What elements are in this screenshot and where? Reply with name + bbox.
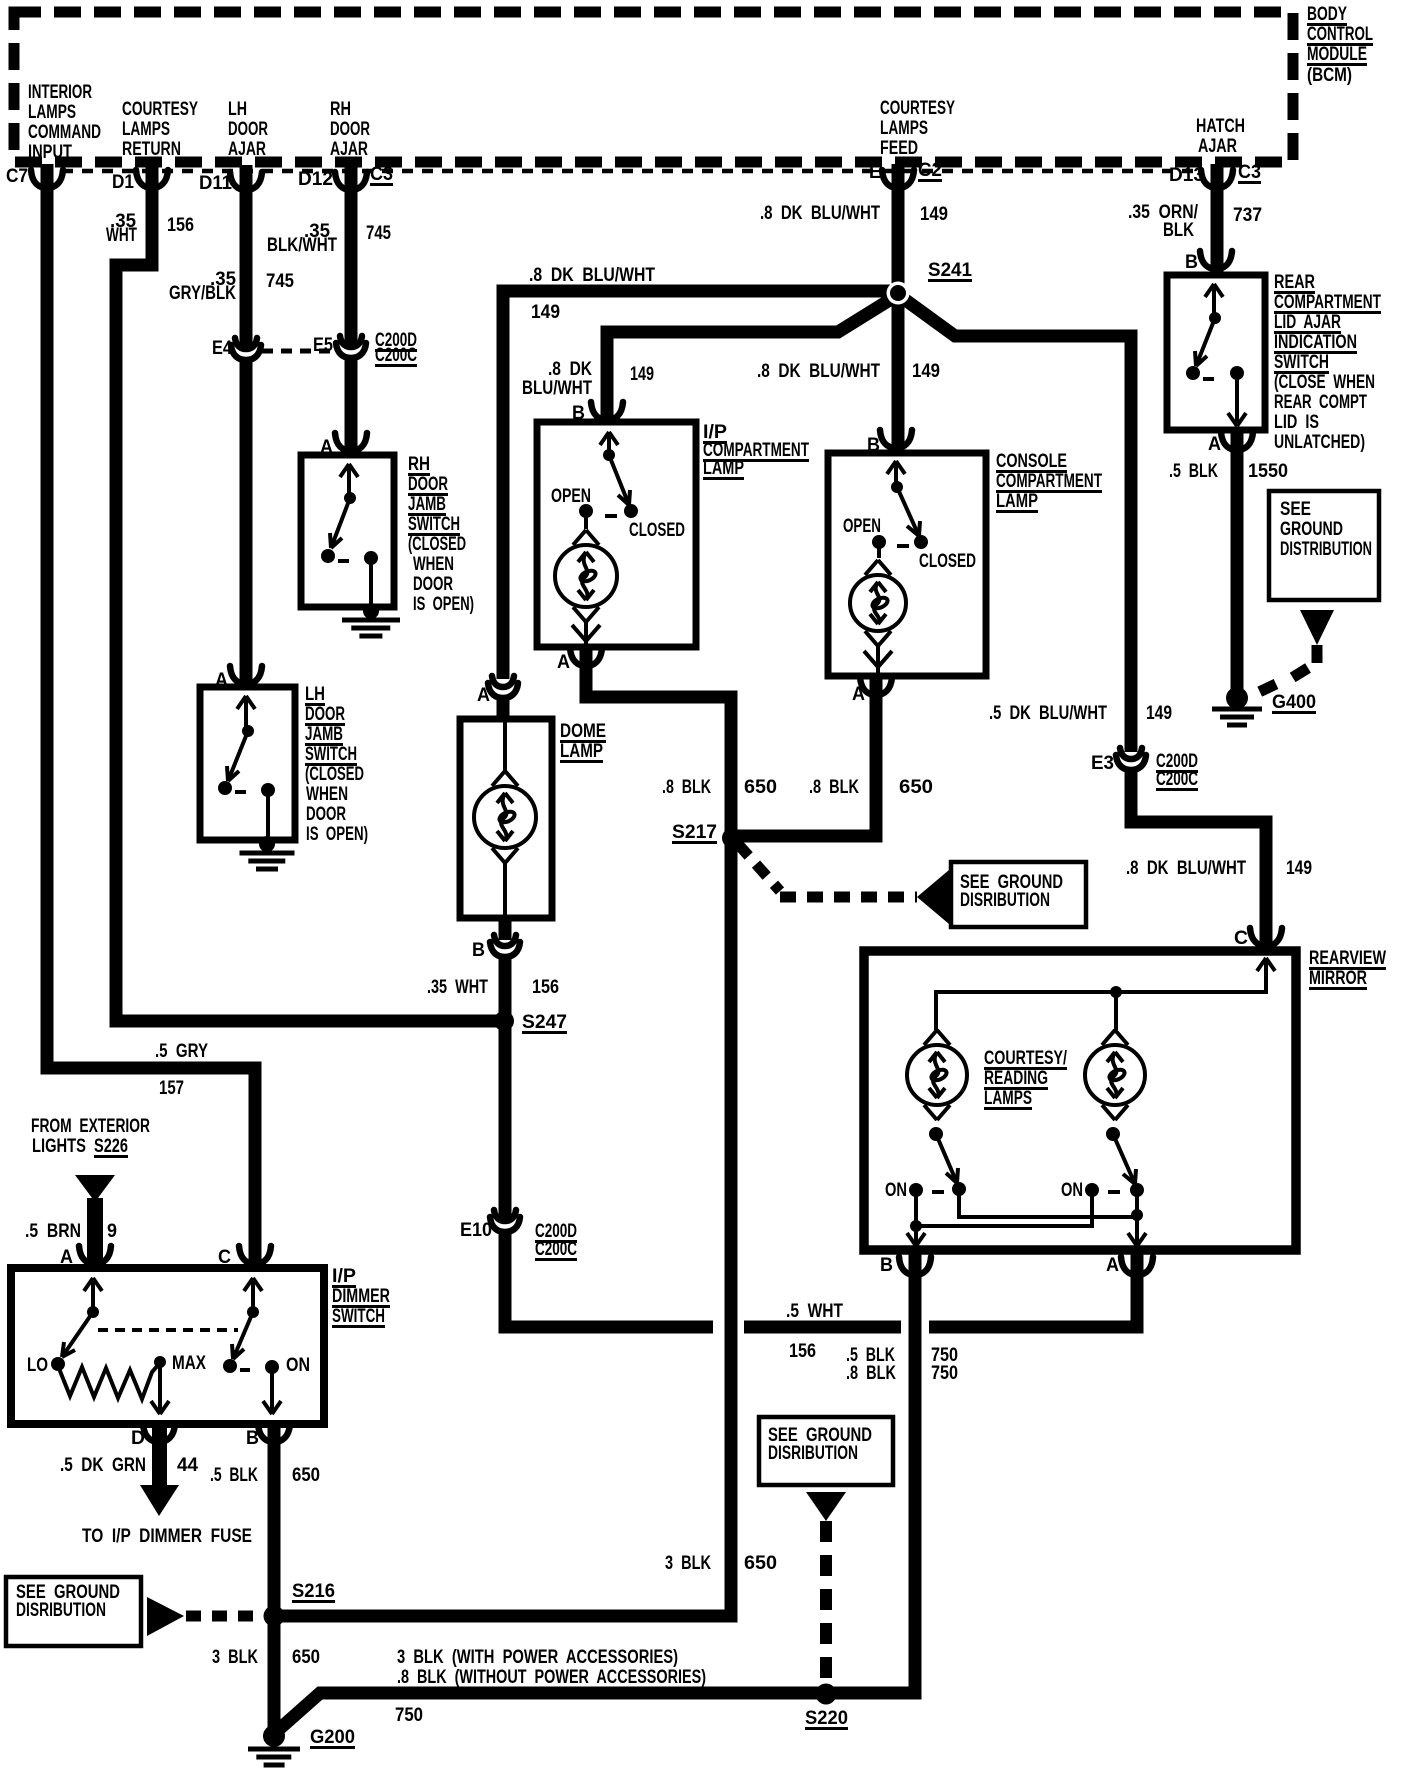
LH jamb switch contacts — [244, 696, 248, 731]
connector at pin D12 — [335, 172, 367, 190]
svg-text:FROM EXTERIOR: FROM EXTERIOR — [31, 1116, 150, 1137]
mirror right courtesy lamp — [1085, 1030, 1145, 1120]
BCM module dashed outline — [14, 12, 1293, 162]
svg-text:3 BLK (WITH POWER ACCESSOR: 3 BLK (WITH POWER ACCESSORIES) — [397, 1647, 678, 1668]
svg-text:3 BLK: 3 BLK — [665, 1553, 711, 1574]
svg-text:RH: RH — [408, 454, 430, 475]
svg-text:D12: D12 — [298, 169, 333, 190]
wire D12 rh door ajar to RH jamb switch — [345, 165, 358, 453]
svg-text:LAMPS: LAMPS — [984, 1088, 1032, 1109]
wire dome B to S247 to E10 to .5 WHT — [505, 955, 713, 1327]
svg-text:MODULE: MODULE — [1307, 44, 1367, 65]
svg-text:WHEN: WHEN — [306, 784, 348, 805]
svg-text:A: A — [1208, 434, 1221, 455]
RH jamb switch contacts — [347, 464, 351, 498]
svg-text:SWITCH: SWITCH — [305, 744, 357, 765]
svg-text:LAMPS: LAMPS — [122, 119, 170, 140]
svg-text:650: 650 — [292, 1465, 320, 1486]
svg-text:RH: RH — [330, 99, 351, 120]
svg-text:LIGHTS: LIGHTS — [32, 1136, 86, 1157]
svg-text:S220: S220 — [805, 1708, 848, 1729]
svg-text:CLOSED: CLOSED — [919, 551, 976, 572]
svg-text:745: 745 — [366, 223, 391, 244]
svg-text:DISRIBUTION: DISRIBUTION — [16, 1600, 106, 1621]
svg-text:AJAR: AJAR — [1198, 136, 1237, 157]
svg-text:A: A — [557, 652, 570, 673]
switch LH door jamb box — [200, 687, 295, 840]
svg-text:S241: S241 — [928, 260, 972, 281]
connector A at dome lamp — [494, 687, 512, 695]
svg-text:1550: 1550 — [1248, 461, 1288, 482]
svg-text:C2: C2 — [918, 160, 942, 181]
svg-text:READING: READING — [984, 1068, 1048, 1089]
svg-text:ON: ON — [885, 1180, 907, 1201]
connector at pin D1 — [136, 170, 168, 188]
wire S241 to E3 hatch branch — [900, 296, 1131, 752]
svg-text:AJAR: AJAR — [228, 139, 266, 160]
svg-text:DOOR: DOOR — [305, 704, 345, 725]
connector A at LH jamb switch — [230, 666, 262, 684]
svg-text:WHEN: WHEN — [413, 554, 454, 575]
svg-text:C3: C3 — [370, 164, 393, 185]
arrow to see ground distribution — [917, 870, 949, 924]
svg-text:LID AJAR: LID AJAR — [1274, 312, 1341, 333]
svg-text:750: 750 — [395, 1705, 423, 1726]
mirror internal ground wiring — [959, 1189, 1137, 1246]
svg-text:I/P: I/P — [332, 1266, 356, 1287]
svg-text:C200C: C200C — [1156, 769, 1198, 790]
svg-text:650: 650 — [292, 1647, 320, 1668]
svg-text:INPUT: INPUT — [28, 142, 72, 163]
see ground distribution box middle — [951, 862, 1086, 927]
svg-text:737: 737 — [1233, 205, 1262, 226]
svg-text:COMPARTMENT: COMPARTMENT — [1274, 292, 1381, 313]
dome lamp bulb — [503, 722, 507, 916]
svg-text:DOOR: DOOR — [413, 574, 453, 595]
wire E3 to rearview mirror C — [1131, 768, 1266, 949]
svg-text:650: 650 — [899, 777, 933, 798]
svg-text:745: 745 — [266, 271, 294, 292]
wire C7 interior lamps command input to dimmer C — [47, 164, 255, 1266]
svg-text:LO: LO — [27, 1355, 48, 1376]
switch RH door jamb box — [301, 455, 394, 607]
connector at pin C7 — [31, 170, 63, 188]
svg-text:E3: E3 — [1091, 753, 1114, 774]
svg-text:BLU/WHT: BLU/WHT — [522, 378, 592, 399]
wire S241 to I/P compartment lamp B — [607, 296, 896, 420]
svg-text:.5 BLK: .5 BLK — [1169, 461, 1218, 482]
svg-text:INDICATION: INDICATION — [1274, 332, 1357, 353]
svg-text:D1: D1 — [112, 172, 134, 193]
svg-text:AJAR: AJAR — [330, 139, 368, 160]
svg-text:TO I/P DIMMER FUSE: TO I/P DIMMER FUSE — [82, 1526, 252, 1547]
arrow to I/P dimmer fuse — [152, 1426, 167, 1487]
svg-text:C7: C7 — [6, 166, 28, 187]
svg-text:DISTRIBUTION: DISTRIBUTION — [1280, 539, 1372, 560]
mirror left courtesy lamp — [907, 1030, 967, 1120]
svg-text:UNLATCHED): UNLATCHED) — [1274, 432, 1365, 453]
svg-text:44: 44 — [177, 1455, 198, 1476]
ground G400 — [1226, 687, 1248, 709]
dashed wire to S216 — [186, 1611, 264, 1622]
svg-text:.8 DK BLU/WHT: .8 DK BLU/WHT — [760, 203, 880, 224]
svg-text:157: 157 — [159, 1078, 184, 1099]
connector C at dimmer switch — [239, 1246, 271, 1264]
console lamp switch — [894, 461, 898, 487]
svg-text:149: 149 — [630, 364, 654, 385]
connector at pin D13 — [1201, 170, 1233, 188]
svg-text:.5 WHT: .5 WHT — [786, 1301, 843, 1322]
connector E4 — [237, 349, 255, 357]
svg-text:COMMAND: COMMAND — [28, 122, 101, 143]
svg-text:(CLOSED: (CLOSED — [408, 534, 466, 555]
svg-text:DOME: DOME — [560, 721, 606, 742]
see ground distribution box bottom left — [6, 1577, 141, 1646]
svg-text:SEE: SEE — [1280, 499, 1311, 520]
svg-text:C200C: C200C — [535, 1239, 577, 1260]
wire mirror A to .5 WHT wire — [929, 1252, 1137, 1327]
svg-text:COMPARTMENT: COMPARTMENT — [996, 471, 1102, 492]
svg-text:COURTESY/: COURTESY/ — [984, 1048, 1068, 1069]
svg-text:GROUND: GROUND — [1280, 519, 1343, 540]
wire D11 lh door ajar to LH jamb switch — [240, 165, 253, 685]
svg-text:LAMP: LAMP — [996, 491, 1038, 512]
wire S241 to dome lamp A — [503, 291, 893, 679]
svg-text:.8 DK BLU/WHT: .8 DK BLU/WHT — [529, 265, 655, 286]
svg-text:B: B — [472, 940, 485, 961]
connector B at mirror — [899, 1257, 931, 1275]
svg-text:650: 650 — [744, 1553, 777, 1574]
svg-text:E4: E4 — [212, 338, 232, 359]
svg-text:BLK: BLK — [1163, 220, 1194, 241]
svg-text:3 BLK: 3 BLK — [212, 1647, 258, 1668]
svg-text:INTERIOR: INTERIOR — [28, 82, 92, 103]
svg-text:A: A — [1106, 1255, 1119, 1276]
I/P lamp bulb — [555, 530, 617, 622]
wire console lamp A to S217 — [737, 678, 876, 836]
svg-text:DOOR: DOOR — [330, 119, 370, 140]
mirror internal feed wire — [936, 958, 1266, 1030]
svg-text:MAX: MAX — [172, 1353, 206, 1374]
svg-text:COURTESY: COURTESY — [880, 98, 955, 119]
svg-text:B: B — [880, 1255, 893, 1276]
arrow from exterior lights — [75, 1175, 115, 1202]
dashed wire to S220 — [820, 1521, 832, 1688]
svg-text:S216: S216 — [292, 1581, 335, 1602]
svg-text:REAR: REAR — [1274, 272, 1315, 293]
svg-text:C3: C3 — [1238, 162, 1261, 183]
console compartment lamp box — [828, 453, 986, 676]
svg-text:RETURN: RETURN — [122, 139, 181, 160]
svg-text:LH: LH — [305, 684, 325, 705]
svg-text:.5 DK BLU/WHT: .5 DK BLU/WHT — [989, 703, 1107, 724]
svg-text:149: 149 — [920, 204, 948, 225]
svg-text:.5 DK GRN: .5 DK GRN — [60, 1455, 146, 1476]
svg-text:650: 650 — [744, 777, 777, 798]
connector E3 — [1122, 759, 1140, 767]
I/P dimmer switch box — [11, 1268, 324, 1424]
splice S216 — [264, 1606, 285, 1627]
svg-text:S217: S217 — [672, 822, 717, 843]
wire S241 to console lamp B — [892, 291, 905, 451]
wire I/P lamp A down to S217 and S216 — [280, 649, 731, 1616]
connector A at console lamp bottom — [860, 677, 892, 695]
svg-text:A: A — [477, 685, 490, 706]
connector B at dimmer bottom — [258, 1424, 290, 1442]
svg-text:(CLOSED: (CLOSED — [305, 764, 364, 785]
console lamp bulb — [850, 560, 906, 646]
svg-text:SWITCH: SWITCH — [1274, 352, 1329, 373]
svg-text:750: 750 — [931, 1363, 958, 1384]
connector B at I/P compartment lamp — [591, 402, 623, 420]
rear lid switch contacts — [1212, 284, 1216, 318]
svg-text:(BCM): (BCM) — [1307, 65, 1352, 86]
wire rear switch A to G400 — [1231, 432, 1244, 692]
svg-text:REAR COMPT: REAR COMPT — [1274, 392, 1367, 413]
svg-text:IS OPEN): IS OPEN) — [413, 594, 474, 615]
splice S217 — [722, 828, 742, 848]
connector D at dimmer bottom — [143, 1424, 175, 1442]
dashed ground wire from S217 — [738, 844, 917, 897]
svg-text:CONSOLE: CONSOLE — [996, 451, 1067, 472]
svg-text:LAMP: LAMP — [560, 741, 603, 762]
mirror right lamp switch — [1106, 1127, 1120, 1141]
mirror left lamp switch — [929, 1127, 943, 1141]
svg-text:.35 WHT: .35 WHT — [427, 977, 488, 998]
dimmer rheostat zigzag — [58, 1363, 160, 1399]
svg-text:SWITCH: SWITCH — [332, 1306, 385, 1327]
arrow from ground distribution box — [147, 1597, 184, 1636]
I/P lamp switch — [607, 432, 611, 455]
svg-text:.8 BLK: .8 BLK — [809, 777, 859, 798]
connector B at console lamp — [880, 430, 912, 448]
connector A at rear lid switch — [1221, 432, 1253, 450]
svg-text:.8 DK BLU/WHT: .8 DK BLU/WHT — [1126, 858, 1246, 879]
svg-text:LAMP: LAMP — [703, 458, 744, 479]
dome lamp box — [460, 719, 552, 918]
svg-text:C: C — [1234, 928, 1248, 949]
svg-text:149: 149 — [1286, 858, 1312, 879]
svg-text:BODY: BODY — [1307, 4, 1347, 25]
dimmer switch A arm — [91, 1278, 95, 1312]
svg-text:LID IS: LID IS — [1274, 412, 1319, 433]
svg-text:DOOR: DOOR — [408, 474, 448, 495]
svg-text:DISRIBUTION: DISRIBUTION — [960, 890, 1050, 911]
connector at pin E — [882, 170, 914, 188]
arrow down from ground distribution box — [1300, 610, 1334, 645]
svg-text:(CLOSE WHEN: (CLOSE WHEN — [1274, 372, 1375, 393]
svg-text:.8 BLK: .8 BLK — [662, 777, 711, 798]
svg-text:C200C: C200C — [375, 345, 417, 366]
connector A at mirror — [1121, 1257, 1153, 1275]
svg-text:156: 156 — [167, 215, 194, 236]
svg-text:LH: LH — [228, 99, 247, 120]
svg-text:B: B — [246, 1428, 259, 1449]
svg-text:A: A — [852, 684, 865, 705]
connector A at dimmer switch — [79, 1246, 111, 1264]
splice S220 — [816, 1684, 837, 1705]
ground at LH jamb switch — [259, 836, 275, 852]
wire D13 hatch ajar to rear lid switch B — [1211, 164, 1224, 273]
svg-text:.8 BLK (WITHOUT POWER ACCE: .8 BLK (WITHOUT POWER ACCESSORIES) — [397, 1667, 706, 1688]
connector E5 — [342, 347, 360, 355]
connector B at dome lamp — [499, 918, 512, 940]
wire D1 courtesy lamps return to S247 — [116, 164, 497, 1021]
wire dome A to dome lamp box — [497, 697, 510, 721]
wire E courtesy lamps feed to S241 — [892, 164, 905, 291]
svg-text:9: 9 — [107, 1221, 117, 1242]
connector A at I/P lamp bottom — [570, 648, 602, 666]
dashed wire to G400 — [1257, 645, 1317, 693]
svg-text:.5 BLK: .5 BLK — [210, 1465, 258, 1486]
svg-text:DISRIBUTION: DISRIBUTION — [768, 1443, 858, 1464]
ground at RH jamb switch — [363, 603, 379, 619]
rear compartment lid switch box — [1167, 275, 1265, 430]
dimmer mechanical link dashed — [98, 1328, 238, 1332]
I/P compartment lamp box — [537, 422, 696, 647]
svg-text:.5 GRY: .5 GRY — [155, 1041, 208, 1062]
svg-text:G200: G200 — [310, 1727, 355, 1748]
see ground distribution box bottom middle — [759, 1417, 893, 1485]
ground G200 — [263, 1725, 285, 1747]
svg-text:FEED: FEED — [880, 138, 918, 159]
svg-text:.8 DK BLU/WHT: .8 DK BLU/WHT — [757, 361, 880, 382]
svg-text:.8 BLK: .8 BLK — [846, 1363, 896, 1384]
svg-text:G400: G400 — [1272, 692, 1316, 713]
svg-text:LAMPS: LAMPS — [880, 118, 928, 139]
svg-text:GRY/BLK: GRY/BLK — [169, 283, 236, 304]
svg-text:LAMPS: LAMPS — [28, 102, 76, 123]
rearview mirror box — [864, 951, 1296, 1250]
svg-text:MIRROR: MIRROR — [1309, 968, 1367, 989]
svg-text:JAMB: JAMB — [305, 724, 343, 745]
svg-text:S226: S226 — [94, 1136, 128, 1157]
BCM connector face dashed line — [62, 169, 1200, 174]
svg-text:IS OPEN): IS OPEN) — [306, 824, 368, 845]
dashed connector link E4-E5 — [262, 349, 334, 354]
svg-text:DIMMER: DIMMER — [332, 1286, 390, 1307]
wire mirror B to S220 to G200 750 — [276, 1252, 915, 1732]
svg-text:WHT: WHT — [106, 225, 137, 246]
svg-text:156: 156 — [789, 1341, 816, 1362]
connector C at rearview mirror — [1250, 928, 1282, 946]
svg-text:OPEN: OPEN — [843, 516, 881, 537]
wire .5 WHT from E10 corner continuing (segment 2) — [744, 1321, 901, 1334]
svg-text:COURTESY: COURTESY — [122, 99, 198, 120]
svg-text:DOOR: DOOR — [306, 804, 346, 825]
see ground distribution box top right — [1269, 491, 1379, 600]
wire dimmer B to S216 to G200 — [268, 1426, 281, 1736]
svg-text:CONTROL: CONTROL — [1307, 24, 1373, 45]
svg-text:ON: ON — [286, 1355, 310, 1376]
svg-text:.5 BRN: .5 BRN — [25, 1221, 81, 1242]
svg-text:S247: S247 — [522, 1012, 567, 1033]
svg-text:HATCH: HATCH — [1196, 116, 1245, 137]
svg-text:JAMB: JAMB — [408, 494, 446, 515]
svg-text:156: 156 — [532, 977, 559, 998]
svg-text:E10: E10 — [460, 1220, 492, 1241]
connector B at rear lid switch — [1200, 251, 1232, 269]
connector A at RH jamb switch — [335, 433, 367, 451]
svg-text:.8 DK: .8 DK — [548, 359, 592, 380]
svg-text:SWITCH: SWITCH — [408, 514, 460, 535]
arrow down to S220 — [806, 1492, 846, 1521]
connector E10 — [496, 1221, 514, 1229]
svg-text:OPEN: OPEN — [551, 486, 591, 507]
svg-text:B: B — [1185, 252, 1198, 273]
svg-text:CLOSED: CLOSED — [629, 520, 685, 541]
svg-text:ON: ON — [1061, 1180, 1083, 1201]
connector at pin D11 — [230, 172, 262, 190]
svg-text:DOOR: DOOR — [228, 119, 268, 140]
svg-text:149: 149 — [531, 302, 560, 323]
svg-text:D: D — [131, 1428, 145, 1449]
dimmer switch C arm — [251, 1278, 255, 1312]
svg-text:149: 149 — [912, 361, 940, 382]
svg-text:REARVIEW: REARVIEW — [1309, 948, 1386, 969]
svg-text:BLK/WHT: BLK/WHT — [267, 235, 337, 256]
svg-text:149: 149 — [1146, 703, 1172, 724]
splice S247 — [494, 1011, 514, 1031]
